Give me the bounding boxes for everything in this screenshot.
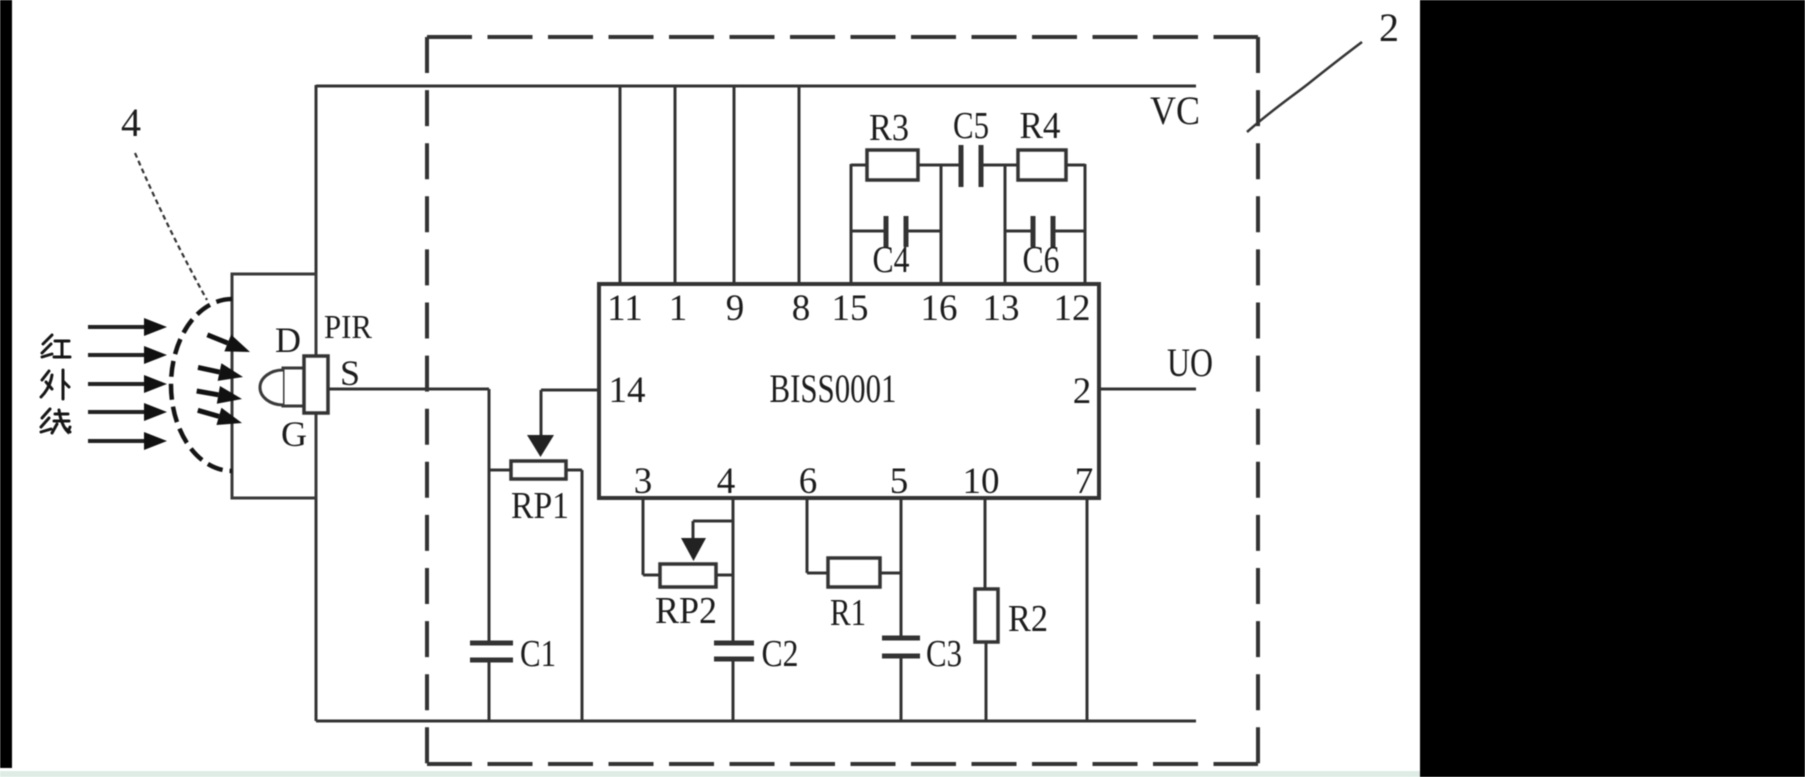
wire: pin 16 rail (R3/C4 right) (940, 164, 943, 284)
wire: C1 branch vertical upper (488, 389, 491, 643)
svg-text:14: 14 (609, 370, 646, 411)
wire: RP1 wiper drop (540, 390, 543, 436)
callout leader line for 4 (135, 153, 207, 300)
svg-text:UO: UO (1167, 340, 1213, 385)
svg-text:1: 1 (669, 288, 688, 329)
wire: pin 14 lead (541, 389, 601, 392)
svg-text:4: 4 (717, 461, 736, 502)
wire: VC top rail (316, 85, 1196, 88)
wire: RP2 wiper feed (693, 521, 733, 540)
potentiometer RP1 (511, 461, 566, 479)
PIR element can nose (260, 370, 283, 405)
wire: RP2 right lead (716, 574, 733, 577)
svg-text:4: 4 (121, 100, 141, 145)
wire: pin 10 drop to R2 (984, 498, 987, 589)
svg-text:S: S (340, 353, 360, 393)
svg-text:C6: C6 (1023, 239, 1060, 281)
svg-text:D: D (275, 320, 301, 360)
resistor R3 (867, 150, 918, 180)
wire: C1 branch vertical lower (488, 661, 491, 721)
capacitor C3 (882, 638, 920, 656)
svg-text:2: 2 (1379, 5, 1399, 50)
svg-text:PIR: PIR (324, 309, 372, 346)
svg-text:BISS0001: BISS0001 (770, 366, 897, 411)
infrared ray arrow 4 (88, 403, 167, 421)
wire: pin 8 to top rail (798, 87, 801, 284)
wire: C4 leads (851, 230, 941, 233)
wire: pin 15 rail (R3/C4 left) (850, 164, 853, 284)
svg-text:15: 15 (832, 288, 869, 329)
wire: pin 6 drop (807, 498, 828, 573)
wire: R3 leads (851, 164, 941, 167)
RP2 wiper arrowhead (681, 538, 706, 561)
capacitor C6 (1033, 216, 1053, 247)
wire: pin 7 drop to ground (1086, 498, 1089, 721)
wire: pin 5 drop upper (900, 498, 903, 638)
svg-text:16: 16 (921, 288, 958, 329)
svg-text:8: 8 (792, 288, 811, 329)
text 外 (wai) (41, 370, 69, 399)
svg-text:R3: R3 (869, 107, 909, 149)
wire: pin 1 to top rail (674, 87, 677, 284)
svg-text:C3: C3 (926, 633, 962, 675)
fresnel lens dome 4 (171, 299, 232, 471)
svg-text:C2: C2 (762, 633, 799, 675)
wire: pin 4 drop lower (C2 to ground) (732, 659, 735, 721)
text 红 (hong) (42, 335, 70, 357)
svg-text:12: 12 (1054, 288, 1091, 329)
wire: R4 leads (1005, 164, 1085, 167)
svg-text:C5: C5 (953, 105, 989, 147)
wire: pin 3 drop (643, 498, 660, 575)
svg-text:7: 7 (1075, 461, 1094, 502)
svg-text:VC: VC (1150, 88, 1200, 133)
svg-text:10: 10 (963, 461, 1000, 502)
wire: pin 9 to top rail (733, 87, 736, 284)
RP1 wiper arrowhead (527, 435, 554, 457)
PIR element can (283, 368, 304, 406)
resistor R1 (828, 558, 880, 587)
infrared ray arrow 1 (88, 318, 167, 336)
scan artifact: right black bar (1420, 0, 1805, 777)
svg-text:RP1: RP1 (511, 485, 569, 527)
svg-text:R4: R4 (1020, 105, 1061, 147)
svg-text:C1: C1 (520, 633, 556, 675)
refracted ray arrow a (204, 326, 253, 360)
capacitor C4 (886, 216, 906, 247)
svg-text:2: 2 (1073, 371, 1092, 412)
wire: RP1 left lead (489, 469, 511, 472)
scan artifact: left black bar (0, 0, 12, 768)
text 线 (xian) (41, 409, 70, 433)
wire: pin 13 rail (R4/C6 left) (1004, 164, 1007, 284)
wire: S source wire to node (328, 388, 489, 391)
callout leader line for 2 (1247, 42, 1362, 132)
module boundary dashed box 2 (427, 37, 1258, 764)
wire: ground bottom rail (316, 720, 1196, 723)
refracted ray arrow c (195, 382, 243, 408)
wire: pin 11 to top rail (619, 87, 622, 284)
resistor R4 (1018, 150, 1066, 180)
PIR sensor housing box (232, 274, 316, 498)
svg-text:R1: R1 (830, 592, 866, 634)
capacitor C2 (714, 643, 754, 659)
PIR element pin tab (304, 356, 328, 413)
svg-text:C4: C4 (873, 239, 910, 281)
refracted ray arrow d (195, 402, 244, 432)
svg-text:13: 13 (983, 288, 1020, 329)
svg-text:5: 5 (890, 461, 909, 502)
resistor R2 (975, 589, 998, 642)
wire: pin 5 drop lower (C3 to ground) (900, 656, 903, 721)
op-amp U1 BISS0001 body (599, 284, 1099, 498)
scan artifact: bottom tint bar (0, 771, 1805, 777)
capacitor C1 (470, 643, 513, 660)
wire: C5 leads (941, 164, 1005, 167)
wire: C6 leads (1005, 230, 1085, 233)
wire: RP1 right to ground (581, 470, 584, 721)
wire: R2 to ground (985, 642, 988, 721)
potentiometer RP2 (660, 564, 716, 587)
svg-text:9: 9 (726, 288, 745, 329)
wire: RP1 right lead (566, 469, 582, 472)
refracted ray arrow b (196, 359, 245, 386)
svg-text:RP2: RP2 (655, 590, 717, 632)
svg-text:3: 3 (634, 461, 653, 502)
wire: pin 2 output lead (1099, 388, 1196, 391)
wire: R1 right lead (880, 572, 901, 575)
svg-text:R2: R2 (1008, 598, 1048, 640)
infrared ray arrow 3 (88, 375, 167, 393)
wire: pin 12 rail (R4/C6 right) (1084, 164, 1087, 284)
svg-text:G: G (281, 414, 307, 454)
capacitor C5 (961, 145, 981, 187)
infrared ray arrow 5 (88, 432, 167, 450)
svg-text:11: 11 (607, 288, 643, 329)
wire: left supply vertical (315, 85, 318, 721)
svg-text:6: 6 (799, 461, 818, 502)
wire: pin 4 drop upper (732, 498, 735, 643)
infrared ray arrow 2 (88, 346, 167, 364)
